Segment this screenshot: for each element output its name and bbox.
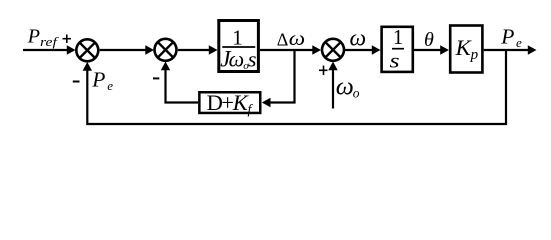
svg-text:P: P <box>500 25 514 49</box>
svg-text:ω: ω <box>229 47 245 72</box>
svg-text:e: e <box>107 78 113 93</box>
svg-text:s: s <box>248 47 257 72</box>
svg-text:θ: θ <box>424 29 434 51</box>
summing junction S2 <box>155 39 177 61</box>
svg-text:1: 1 <box>393 27 403 49</box>
wire: S2 to block 1/(Jwos) with arrowhead <box>178 45 218 54</box>
svg-text:ω: ω <box>336 72 354 101</box>
wire: block U1 to S3 with arrowhead (branch node at x=294) <box>260 45 321 54</box>
wire: D+Kf output up into S2 (arrowhead up) <box>161 62 198 103</box>
label Pref <box>27 25 60 49</box>
svg-text:Δ: Δ <box>277 29 289 49</box>
plus sign at summer S1 <box>63 35 72 44</box>
label omega_o <box>336 72 360 101</box>
label delta-omega <box>277 28 305 50</box>
wire: S3 to block 1/s with arrowhead <box>345 45 381 54</box>
minus sign at S1 <box>73 81 80 83</box>
wire: Pref input with arrowhead into summer S1 <box>23 45 76 54</box>
block U3: Kp <box>450 26 482 73</box>
svg-text:K: K <box>232 90 249 115</box>
block U4: D+Kf <box>199 90 260 117</box>
block U1: 1/(J wo s) <box>219 21 259 73</box>
label Pe (feedback into S1) <box>91 68 113 93</box>
wire: S1 to S2 with arrowhead <box>100 45 154 54</box>
svg-text:e: e <box>516 35 522 50</box>
svg-text:P: P <box>27 25 40 47</box>
svg-text:ω: ω <box>289 28 305 50</box>
svg-text:ref: ref <box>40 34 60 49</box>
svg-text:p: p <box>470 47 479 63</box>
wire: omega_o input from below into S3 (arrowhead up) <box>328 62 337 109</box>
svg-text:P: P <box>91 68 105 92</box>
summing junction S1 <box>76 39 98 61</box>
wire: branch down from delta-omega node into D+Kf block (arrowhead left) <box>262 50 295 107</box>
plus sign at S3 <box>319 66 328 76</box>
block U2: 1/s <box>382 27 413 73</box>
svg-text:o: o <box>353 85 360 100</box>
svg-text:ω: ω <box>350 26 367 52</box>
wire: Kp output Pe with arrowhead (branch node at x=506) <box>484 45 537 54</box>
svg-text:s: s <box>389 49 399 73</box>
minus sign at S2 <box>153 77 159 79</box>
summing junction S3 <box>322 39 344 61</box>
wire: 1/s to Kp with arrowhead <box>414 45 449 54</box>
label Pe (output) <box>500 25 522 50</box>
wire: Pe feedback down, left along bottom, up into S1 (arrowhead up) <box>83 50 506 124</box>
